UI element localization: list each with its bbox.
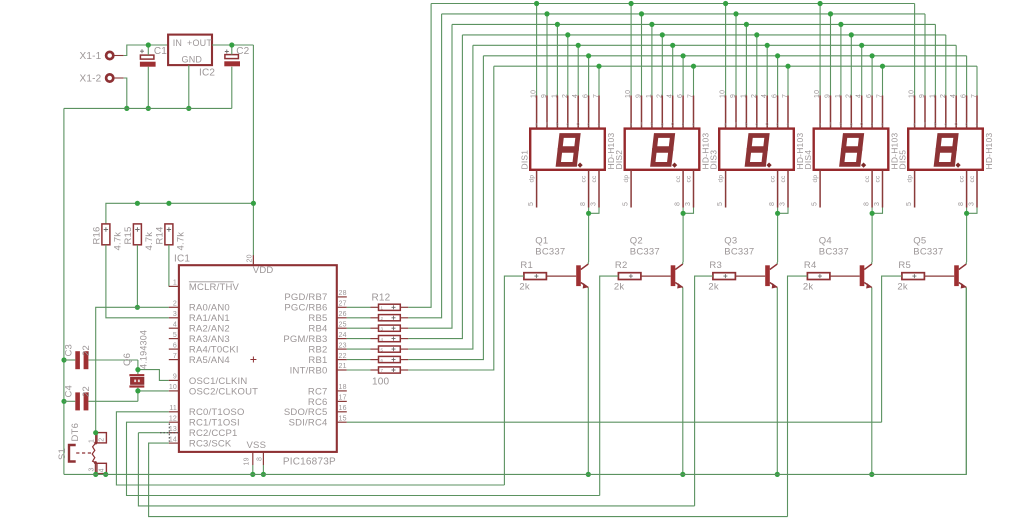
svg-text:22: 22 (81, 386, 92, 397)
svg-text:C4: C4 (64, 385, 75, 398)
svg-text:Q3: Q3 (724, 236, 737, 247)
svg-text:d: d (776, 121, 779, 126)
resistor R1 2k (519, 260, 546, 292)
junction bus1/DIS2 (629, 1, 634, 6)
resistor R5 2k (897, 260, 924, 292)
7-segment display DIS5 HD-H103 (898, 90, 994, 208)
svg-text:5: 5 (906, 202, 913, 206)
wire DIS4 pin tap 2 (830, 14, 832, 96)
wire Q2 emitter to GND (682, 288, 684, 475)
wire C3/crystal to OSC1 pin9 (138, 360, 169, 380)
svg-text:RA4/T0CKI: RA4/T0CKI (189, 345, 239, 356)
wire X1-2 to GND rail (124, 78, 127, 108)
svg-text:21: 21 (339, 363, 347, 370)
svg-text:R5: R5 (898, 260, 911, 271)
wire DIS3 pin tap 6 (777, 56, 779, 96)
wire RB segment net row 4 (347, 35, 463, 339)
svg-text:8: 8 (958, 202, 965, 206)
wire DIS4 pin tap 1 (819, 4, 821, 96)
svg-text:2: 2 (562, 94, 569, 98)
junction bus2/DIS2 (639, 11, 644, 16)
junction C2 top (229, 42, 234, 47)
svg-text:7: 7 (877, 94, 884, 98)
svg-text:Q4: Q4 (819, 236, 832, 247)
svg-text:9: 9 (825, 94, 832, 98)
svg-text:27: 27 (339, 301, 347, 308)
svg-text:PGM/RB3: PGM/RB3 (283, 334, 327, 345)
wire segment bus line 1 (431, 4, 914, 96)
wire segment bus line 2 (442, 14, 925, 96)
svg-text:17: 17 (339, 395, 347, 402)
svg-text:1: 1 (89, 439, 96, 443)
junction VSS8 GND (261, 472, 266, 477)
svg-text:GND: GND (182, 55, 203, 65)
svg-text:d: d (965, 121, 968, 126)
svg-text:C: C (765, 121, 769, 126)
transistor Q2 BC337 (630, 236, 683, 289)
svg-text:1: 1 (929, 94, 936, 98)
junction +5V R14 (166, 201, 171, 206)
wire R15 to RA0 net (136, 245, 138, 307)
svg-text:RA1/AN1: RA1/AN1 (189, 313, 230, 324)
junction Q2 emitter GND (680, 472, 685, 477)
svg-text:7: 7 (782, 94, 789, 98)
svg-text:C1: C1 (154, 46, 167, 57)
resistor R14 4.7k (154, 224, 186, 251)
wire X1-1 to IN net (124, 45, 168, 56)
junction DIS4 cc (870, 211, 875, 216)
svg-text:RA2/AN2: RA2/AN2 (189, 324, 230, 335)
svg-text:9: 9 (636, 94, 643, 98)
junction R15/RA0 (135, 305, 140, 310)
junction DIS5 cc (964, 211, 969, 216)
svg-text:4: 4 (572, 94, 579, 98)
svg-text:5: 5 (528, 202, 535, 206)
svg-text:b: b (745, 121, 748, 126)
svg-text:IC2: IC2 (199, 68, 215, 79)
svg-text:b: b (651, 121, 654, 126)
wire Q5 emitter to GND (965, 288, 967, 475)
junction bus4/DIS3 (754, 32, 759, 37)
svg-text:OSC2/CLKOUT: OSC2/CLKOUT (189, 386, 258, 397)
junction GND/C4 (61, 399, 66, 404)
svg-text:7: 7 (173, 353, 177, 360)
svg-text:d: d (871, 121, 874, 126)
svg-text:4: 4 (761, 94, 768, 98)
svg-text:RA3/AN3: RA3/AN3 (189, 334, 230, 345)
connector X1-1 (80, 51, 124, 62)
svg-text:+OUT: +OUT (187, 38, 212, 48)
capacitor C1 (140, 45, 167, 108)
svg-text:5: 5 (381, 347, 384, 352)
svg-text:2k: 2k (897, 281, 907, 292)
7-segment display DIS2 HD-H103 (614, 90, 710, 208)
wire C4/crystal to OSC2 pin10 (138, 391, 169, 401)
svg-text:28: 28 (339, 290, 347, 297)
wire DIS2 pin tap 4 (661, 35, 663, 96)
svg-text:RC7: RC7 (308, 386, 328, 397)
junction C1 top (146, 42, 151, 47)
wire DIS1 pin tap 5 (577, 45, 579, 95)
svg-text:e: e (598, 121, 601, 126)
svg-text:1: 1 (551, 94, 558, 98)
resistor R2 2k (614, 260, 641, 292)
svg-text:7: 7 (593, 94, 600, 98)
wire segment bus line 7 (494, 66, 977, 95)
wire RA0 pin2 to switch S1 (96, 307, 169, 432)
svg-text:8: 8 (257, 457, 264, 461)
svg-text:1: 1 (740, 94, 747, 98)
wire Q1 emitter to GND (587, 288, 589, 475)
svg-text:R15: R15 (123, 226, 134, 244)
junction bus6/DIS4 (870, 53, 875, 58)
svg-text:10: 10 (720, 90, 727, 98)
wire DIS3 pin tap 2 (735, 14, 737, 96)
svg-text:MCLR/THV: MCLR/THV (189, 282, 240, 293)
wire Q5 collector (965, 262, 967, 264)
svg-text:4.7k: 4.7k (175, 232, 186, 251)
svg-text:1: 1 (835, 94, 842, 98)
svg-text:4: 4 (381, 337, 384, 342)
svg-text:2: 2 (173, 301, 177, 308)
junction X1-2/GND (124, 106, 129, 111)
svg-text:100: 100 (372, 377, 390, 388)
junction bus1/DIS3 (723, 1, 728, 6)
junction DIS2 cc (681, 211, 686, 216)
resistor R16 4.7k (91, 224, 123, 251)
svg-text:OSC1/CLKIN: OSC1/CLKIN (189, 376, 248, 387)
svg-text:2: 2 (99, 438, 106, 442)
wire +5V rail to pullups (106, 203, 254, 224)
svg-text:R1: R1 (520, 260, 533, 271)
wire segment bus line 5 (473, 45, 956, 95)
svg-text:2k: 2k (519, 281, 529, 292)
junction bus3/DIS2 (649, 22, 654, 27)
junction bus4/DIS2 (660, 32, 665, 37)
junction +5V VDD (251, 201, 256, 206)
svg-text:Q5: Q5 (913, 236, 926, 247)
svg-text:DIS2: DIS2 (614, 150, 624, 170)
svg-text:RC3/SCK: RC3/SCK (189, 439, 232, 450)
svg-text:9: 9 (541, 94, 548, 98)
wire DIS2 pin tap 7 (693, 66, 695, 95)
svg-text:cc: cc (675, 175, 682, 182)
svg-text:cc: cc (686, 175, 693, 182)
svg-text:7: 7 (688, 94, 695, 98)
svg-text:e: e (976, 121, 979, 126)
svg-text:8: 8 (864, 202, 871, 206)
wire VSS pin19 to GND (252, 465, 254, 474)
svg-text:18: 18 (339, 384, 347, 391)
svg-text:5: 5 (623, 202, 630, 206)
svg-text:RA5/AN4: RA5/AN4 (189, 355, 230, 366)
junction bus3/DIS3 (744, 22, 749, 27)
svg-text:6: 6 (961, 94, 968, 98)
7-segment display DIS4 HD-H103 (803, 90, 899, 208)
svg-text:2: 2 (381, 316, 384, 321)
svg-text:DIS3: DIS3 (709, 150, 719, 170)
junction Q4 emitter GND (869, 472, 874, 477)
svg-text:7: 7 (381, 368, 384, 373)
svg-text:DIS5: DIS5 (898, 150, 908, 170)
svg-text:RA0/AN0: RA0/AN0 (189, 303, 230, 314)
svg-text:5: 5 (173, 332, 177, 339)
svg-text:R2: R2 (615, 260, 628, 271)
svg-text:10: 10 (814, 90, 821, 98)
junction bus3/DIS4 (838, 22, 843, 27)
svg-text:b: b (934, 121, 937, 126)
svg-text:cc: cc (581, 175, 588, 182)
svg-text:cc: cc (959, 175, 966, 182)
svg-text:24: 24 (339, 332, 347, 339)
svg-text:12: 12 (169, 415, 177, 422)
svg-text:8: 8 (580, 202, 587, 206)
svg-text:3: 3 (685, 202, 692, 206)
svg-text:2k: 2k (803, 281, 813, 292)
svg-text:cc: cc (864, 175, 871, 182)
junction bus3/DIS1 (555, 22, 560, 27)
svg-text:X1-1: X1-1 (80, 51, 102, 62)
svg-text:a: a (819, 121, 822, 126)
svg-text:b: b (556, 121, 559, 126)
svg-text:22: 22 (339, 353, 347, 360)
svg-text:8: 8 (769, 202, 776, 206)
wire SDI/RC4 pin15 to Q5 (347, 421, 882, 423)
resistor R4 2k (803, 260, 830, 292)
svg-text:IC1: IC1 (174, 254, 190, 265)
svg-text:RC2/CCP1: RC2/CCP1 (189, 428, 238, 439)
wire DIS1 pin tap 1 (536, 4, 538, 96)
svg-text:RB4: RB4 (308, 324, 327, 335)
svg-text:2: 2 (940, 94, 947, 98)
svg-text:HD-H103: HD-H103 (984, 133, 994, 170)
svg-text:R14: R14 (154, 226, 165, 244)
svg-text:BC337: BC337 (535, 247, 565, 258)
svg-text:3: 3 (381, 326, 384, 331)
wire segment bus line 6 (483, 56, 966, 96)
wire +5V vertical to rail (252, 45, 254, 265)
svg-text:6: 6 (772, 94, 779, 98)
svg-text:d: d (587, 121, 590, 126)
wire DIS2 pin tap 2 (641, 14, 643, 96)
svg-text:11: 11 (169, 405, 177, 412)
wire DIS2 pin tap 5 (672, 45, 674, 95)
svg-text:a: a (724, 121, 727, 126)
svg-text:PGC/RB6: PGC/RB6 (284, 303, 327, 314)
svg-text:13: 13 (169, 426, 177, 433)
svg-text:6: 6 (677, 94, 684, 98)
junction IC2 GND (186, 106, 191, 111)
junction +5V R15 (135, 201, 140, 206)
svg-text:BC337: BC337 (819, 247, 849, 258)
junction GND/C3 (61, 357, 66, 362)
junction bus5/DIS4 (859, 43, 864, 48)
svg-text:g: g (661, 121, 664, 126)
svg-text:4: 4 (99, 468, 106, 472)
wire DIS2 pin tap 6 (682, 56, 684, 96)
junction S1 pin3 GND (93, 472, 98, 477)
junction bus4/DIS1 (565, 32, 570, 37)
microcontroller IC1 PIC16873P (169, 254, 347, 468)
svg-text:5: 5 (717, 202, 724, 206)
svg-text:C: C (671, 121, 675, 126)
wire VSS pin8 to GND (262, 465, 264, 474)
svg-text:INT/RB0: INT/RB0 (290, 365, 328, 376)
dotted stub pin13 (160, 423, 179, 441)
wire DIS2 pin tap 1 (630, 4, 632, 96)
wire RB segment net row 2 (347, 14, 442, 318)
wire RB segment net row 5 (347, 45, 473, 349)
svg-text:20: 20 (247, 254, 254, 262)
svg-text:RB1: RB1 (308, 355, 327, 366)
wire DIS1 pin tap 4 (567, 35, 569, 96)
wire DIS3 pin tap 7 (787, 66, 789, 95)
svg-text:Q6: Q6 (122, 353, 133, 366)
svg-text:R16: R16 (91, 226, 102, 244)
junction DIS3 cc (775, 211, 780, 216)
svg-text:9: 9 (730, 94, 737, 98)
svg-text:g: g (755, 121, 758, 126)
svg-text:R12: R12 (372, 293, 391, 304)
svg-text:3: 3 (173, 311, 177, 318)
capacitor C4 22 (64, 385, 138, 410)
svg-text:RB5: RB5 (308, 313, 327, 324)
wire Q4 emitter to GND (871, 288, 873, 475)
svg-text:PGD/RB7: PGD/RB7 (284, 292, 327, 303)
wire GND left rail (63, 108, 65, 474)
wire RB segment net row 3 (347, 24, 452, 328)
svg-text:3: 3 (591, 202, 598, 206)
wire RC0 pin11 to Q1 (116, 412, 504, 485)
svg-text:6: 6 (583, 94, 590, 98)
svg-text:a: a (535, 121, 538, 126)
wire riser to R4 (788, 276, 808, 516)
svg-text:Q1: Q1 (535, 236, 548, 247)
wire DIS2 cc join (683, 208, 693, 263)
wire DIS5 cc join (967, 208, 977, 263)
svg-text:dp: dp (718, 175, 725, 183)
wire Q2 collector (682, 262, 684, 264)
junction crystal top (135, 367, 140, 372)
wire riser to R5 (882, 276, 902, 422)
svg-text:dp: dp (529, 175, 536, 183)
svg-text:dp: dp (812, 175, 819, 183)
junction bus5/DIS2 (670, 43, 675, 48)
svg-text:C: C (576, 121, 580, 126)
svg-text:22: 22 (81, 345, 92, 356)
wire segment bus line 4 (462, 35, 945, 96)
svg-text:cc: cc (875, 175, 882, 182)
svg-text:RC6: RC6 (308, 397, 328, 408)
junction S1 pin4 GND (103, 472, 108, 477)
svg-text:15: 15 (339, 415, 347, 422)
wire RB segment net row 6 (347, 56, 484, 360)
svg-text:4: 4 (173, 321, 177, 328)
voltage regulator IC2 (168, 35, 215, 79)
svg-text:4.7k: 4.7k (112, 232, 123, 251)
svg-text:14: 14 (169, 436, 177, 443)
svg-text:a: a (630, 121, 633, 126)
wire DIS2 pin tap 3 (651, 24, 653, 95)
svg-text:BC337: BC337 (724, 247, 754, 258)
svg-text:2: 2 (656, 94, 663, 98)
svg-text:10: 10 (531, 90, 538, 98)
junction crystal bottom (135, 388, 140, 393)
svg-text:26: 26 (339, 311, 347, 318)
svg-text:9: 9 (919, 94, 926, 98)
junction bus2/DIS3 (733, 11, 738, 16)
wire DIS4 pin tap 6 (871, 56, 873, 96)
svg-text:PIC16873P: PIC16873P (283, 457, 336, 468)
transistor Q3 BC337 (724, 236, 777, 289)
junction bus1/DIS4 (818, 1, 823, 6)
junction bus5/DIS3 (765, 43, 770, 48)
svg-text:DIS4: DIS4 (803, 150, 813, 170)
junction Q3 emitter GND (775, 472, 780, 477)
7-segment display DIS1 HD-H103 (520, 90, 616, 208)
wire Q3 collector (776, 262, 778, 264)
svg-text:1: 1 (173, 280, 177, 287)
IC2 GND pin wire (188, 65, 190, 108)
wire segment bus line 3 (452, 24, 935, 95)
svg-text:19: 19 (244, 457, 251, 465)
svg-text:cc: cc (780, 175, 787, 182)
junction bus7/DIS4 (880, 64, 885, 69)
svg-text:g: g (944, 121, 947, 126)
svg-text:dp: dp (623, 175, 630, 183)
junction bus2/DIS1 (544, 11, 549, 16)
junction bus6/DIS3 (775, 53, 780, 58)
junction bus1/DIS1 (534, 1, 539, 6)
wire GND bottom rail (64, 288, 966, 475)
wire riser to R1 (504, 276, 524, 485)
svg-text:g: g (850, 121, 853, 126)
wire DIS4 pin tap 4 (850, 35, 852, 96)
svg-text:1: 1 (646, 94, 653, 98)
svg-text:6: 6 (866, 94, 873, 98)
svg-text:2k: 2k (614, 281, 624, 292)
svg-text:g: g (566, 121, 569, 126)
svg-text:S1: S1 (57, 448, 68, 460)
svg-text:cc: cc (770, 175, 777, 182)
svg-text:16: 16 (339, 405, 347, 412)
capacitor C3 22 (64, 344, 138, 369)
svg-text:DT6: DT6 (70, 423, 81, 442)
svg-text:RC1/T1OSI: RC1/T1OSI (189, 418, 240, 429)
svg-text:dp: dp (907, 175, 914, 183)
wire GND rail top (64, 107, 232, 109)
svg-text:2k: 2k (708, 281, 718, 292)
svg-text:VSS: VSS (247, 440, 267, 451)
wire DIS1 pin tap 3 (556, 24, 558, 95)
junction bus5/DIS1 (576, 43, 581, 48)
svg-text:cc: cc (969, 175, 976, 182)
wire DIS1 pin tap 6 (588, 56, 590, 96)
junction VSS19 GND (250, 472, 255, 477)
svg-text:RB2: RB2 (308, 345, 327, 356)
junction bus6/DIS1 (586, 53, 591, 58)
svg-text:e: e (881, 121, 884, 126)
svg-text:R3: R3 (709, 260, 722, 271)
svg-text:9: 9 (173, 374, 177, 381)
svg-text:IN: IN (173, 38, 182, 48)
svg-text:6: 6 (173, 342, 177, 349)
crystal Q6 4.194304 (122, 330, 149, 391)
svg-text:3: 3 (874, 202, 881, 206)
junction bus4/DIS4 (849, 32, 854, 37)
wire DIS3 pin tap 4 (756, 35, 758, 96)
svg-text:2: 2 (845, 94, 852, 98)
